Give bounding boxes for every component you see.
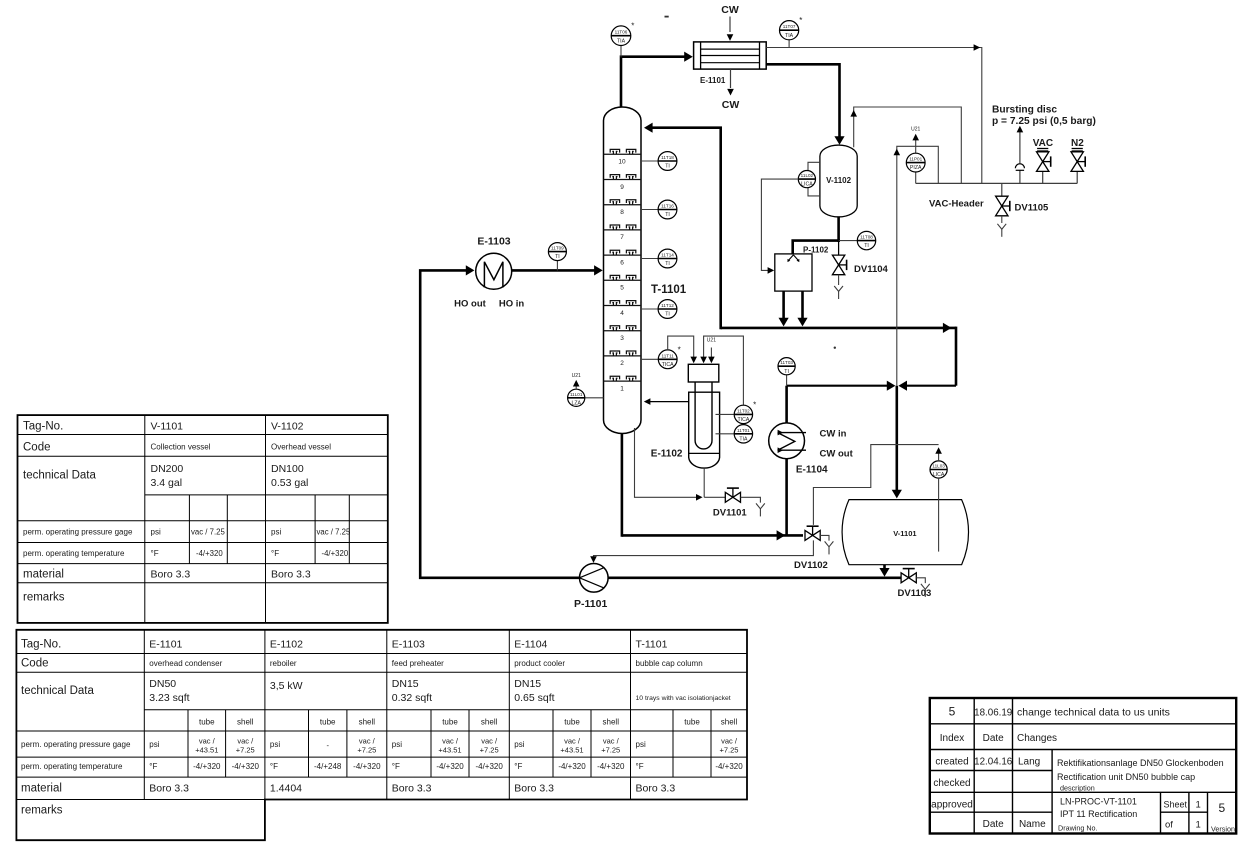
svg-text:HO out: HO out (454, 299, 486, 310)
svg-text:7: 7 (620, 234, 624, 241)
svg-text:product cooler: product cooler (514, 659, 565, 668)
wire product line to V-1101 junction (787, 381, 956, 391)
svg-text:0.65 sqft: 0.65 sqft (514, 692, 554, 704)
svg-text:DN50: DN50 (149, 678, 176, 690)
svg-text:P-1101: P-1101 (574, 598, 607, 610)
svg-text:TI: TI (784, 369, 789, 375)
svg-text:10: 10 (618, 159, 626, 166)
valve DV1105 (996, 183, 1010, 215)
svg-text:TI: TI (665, 164, 670, 170)
instrument 11T14 TI tray6 (641, 249, 677, 268)
svg-text:Date: Date (983, 819, 1005, 830)
svg-text:DV1103: DV1103 (898, 588, 932, 599)
svg-text:TICA: TICA (737, 417, 749, 423)
drain below DV1105 (997, 216, 1006, 237)
table vessels text (23, 421, 351, 604)
svg-text:VAC-Header: VAC-Header (929, 198, 984, 209)
svg-text:remarks: remarks (23, 592, 65, 604)
tray 1 (604, 376, 642, 392)
wire E-1104 bottom connection (785, 459, 788, 536)
svg-text:E-1102: E-1102 (651, 449, 683, 460)
svg-text:PIZA: PIZA (910, 165, 922, 171)
label P-1102 (803, 246, 829, 255)
label CW in (820, 429, 847, 440)
svg-text:12.04.16: 12.04.16 (974, 757, 1013, 768)
column T-1101 (604, 107, 642, 434)
svg-text:-4/+320: -4/+320 (475, 762, 503, 771)
instrument 11T11 TICA tray2 (641, 345, 681, 368)
svg-text:LN-PROC-VT-1101: LN-PROC-VT-1101 (1060, 797, 1137, 807)
bursting disc (1015, 126, 1024, 184)
svg-text:5: 5 (1218, 801, 1225, 815)
svg-text:°F: °F (271, 549, 279, 558)
svg-text:11P01: 11P01 (909, 157, 922, 162)
svg-text:11T11: 11T11 (662, 353, 675, 358)
svg-text:11T16: 11T16 (661, 204, 674, 209)
wire E-1104 top connection (785, 386, 788, 423)
svg-text:Boro 3.3: Boro 3.3 (149, 783, 189, 795)
svg-text:shell: shell (237, 718, 254, 727)
svg-text:psi: psi (270, 740, 280, 749)
wire E-1102 return to column (644, 398, 689, 405)
svg-text:Code: Code (21, 658, 49, 670)
valve DV1104 (832, 255, 846, 275)
svg-text:vac / 7.25: vac / 7.25 (317, 528, 351, 537)
tray 3 (604, 326, 642, 342)
svg-text:18.06.19: 18.06.19 (974, 708, 1012, 719)
wire P-1102 discharge legs (779, 291, 808, 326)
stray dot 1 (665, 16, 669, 18)
svg-text:Collection vessel: Collection vessel (151, 443, 211, 452)
svg-text:*: * (631, 21, 634, 30)
label E-1101 (700, 76, 726, 85)
svg-text:-4/+320: -4/+320 (196, 549, 223, 558)
svg-text:HO in: HO in (499, 299, 525, 310)
svg-text:Lang: Lang (1018, 757, 1040, 768)
label DV1105 (1015, 203, 1050, 214)
svg-text:+7.25: +7.25 (720, 746, 739, 755)
vessel V-1101 (842, 500, 968, 565)
svg-text:psi: psi (151, 528, 161, 537)
svg-text:Overhead vessel: Overhead vessel (271, 443, 331, 452)
wire VAC header (916, 182, 1077, 184)
svg-text:vac /: vac / (481, 737, 498, 746)
label DV1103 (898, 588, 932, 599)
svg-text:11T08: 11T08 (860, 235, 873, 240)
instrument 11L03 LICA on V-1101 (930, 461, 947, 478)
reboiler E-1102 heating element (695, 382, 712, 449)
instrument 11T03 TI (778, 358, 795, 386)
wire level signal 11L02 to P-1102 (761, 179, 798, 274)
svg-text:*: * (799, 16, 802, 25)
instrument 11T16 TI tray8 (641, 200, 677, 219)
svg-text:DN200: DN200 (151, 463, 184, 475)
svg-text:TIA: TIA (785, 33, 794, 39)
wire control signal 11T02 to E-1102 heater (700, 336, 743, 405)
tray 6 (604, 250, 642, 266)
utility U21 arrow to E-1102 heater (707, 338, 716, 364)
reboiler E-1102 vessel (689, 392, 720, 468)
svg-text:reboiler: reboiler (270, 659, 297, 668)
CW inlet top (721, 4, 739, 41)
svg-text:11T02: 11T02 (737, 408, 750, 413)
tray 7 (604, 225, 642, 241)
valve DV1101 (725, 488, 740, 502)
svg-text:-4/+320: -4/+320 (193, 762, 221, 771)
instrument 11L01 LZA column bottom (568, 389, 604, 406)
svg-text:11L01: 11L01 (570, 392, 583, 397)
label E-1102 (651, 449, 683, 460)
svg-text:+7.25: +7.25 (357, 746, 376, 755)
svg-text:11T14: 11T14 (661, 253, 674, 258)
svg-text:Rectification unit DN50 bubble: Rectification unit DN50 bubble cap (1057, 772, 1195, 782)
svg-text:11T03: 11T03 (780, 360, 793, 365)
svg-text:E-1104: E-1104 (796, 465, 828, 476)
svg-text:Boro 3.3: Boro 3.3 (636, 783, 676, 795)
svg-text:TI: TI (665, 312, 670, 318)
svg-text:perm. operating pressure gage: perm. operating pressure gage (21, 740, 131, 749)
wire V-1102 drain branch (838, 241, 840, 256)
svg-text:overhead condenser: overhead condenser (149, 659, 222, 668)
svg-text:tube: tube (564, 718, 580, 727)
svg-text:1: 1 (1196, 820, 1201, 831)
svg-text:TIA: TIA (617, 38, 626, 44)
svg-text:3,5 kW: 3,5 kW (270, 680, 303, 692)
title block grid (930, 698, 1236, 834)
svg-text:bubble cap column: bubble cap column (636, 659, 703, 668)
svg-text:+7.25: +7.25 (236, 746, 255, 755)
svg-text:checked: checked (933, 778, 970, 789)
svg-text:5: 5 (620, 285, 624, 292)
svg-text:+7.25: +7.25 (601, 746, 620, 755)
svg-text:°F: °F (392, 762, 400, 771)
svg-text:tube: tube (320, 718, 336, 727)
svg-text:11T09: 11T09 (551, 246, 564, 251)
svg-text:-4/+320: -4/+320 (597, 762, 625, 771)
wire vent line E-1101 to VAC header (766, 44, 982, 183)
svg-text:vac /: vac / (359, 737, 376, 746)
svg-text:CW: CW (722, 99, 740, 111)
svg-text:*: * (678, 345, 681, 354)
svg-text:DV1105: DV1105 (1015, 203, 1050, 214)
instrument 11T02 TICA (716, 401, 757, 424)
svg-text:perm. operating pressure gage: perm. operating pressure gage (23, 528, 133, 537)
svg-text:11L03: 11L03 (932, 464, 945, 469)
label E-1103 (477, 236, 510, 248)
svg-text:DV1104: DV1104 (854, 264, 889, 275)
svg-text:vac /: vac / (237, 737, 254, 746)
svg-text:°F: °F (514, 762, 522, 771)
svg-text:°F: °F (270, 762, 278, 771)
svg-text:material: material (21, 783, 62, 795)
svg-text:-4/+320: -4/+320 (715, 762, 743, 771)
svg-text:10 trays with vac isolationjac: 10 trays with vac isolationjacket (636, 695, 731, 702)
instrument 11T01 TIA (716, 425, 753, 443)
svg-text:of: of (1165, 820, 1173, 831)
svg-text:Sheet: Sheet (1164, 800, 1188, 810)
svg-text:1: 1 (1196, 800, 1201, 811)
svg-text:CW: CW (721, 4, 739, 16)
reboiler E-1102 heater head (688, 364, 719, 382)
utility U21 arrow at 11L01 (572, 373, 581, 389)
wire column drain line to DV1101 (635, 428, 726, 501)
svg-text:P-1102: P-1102 (803, 246, 829, 255)
wire 11L03 dip tube (938, 478, 940, 551)
label CW out (820, 449, 854, 460)
svg-text:-4/+320: -4/+320 (436, 762, 464, 771)
svg-text:Tag-No.: Tag-No. (23, 421, 63, 433)
svg-text:Boro 3.3: Boro 3.3 (151, 569, 191, 581)
table equipment text (21, 639, 743, 817)
svg-text:T-1101: T-1101 (636, 639, 668, 651)
svg-text:Bursting disc: Bursting disc (992, 105, 1057, 116)
svg-text:8: 8 (620, 209, 624, 216)
drain after DV1101 (741, 497, 765, 516)
wire level signal 11L03 to DV1102 (813, 445, 942, 525)
svg-text:IPT 11 Rectification: IPT 11 Rectification (1060, 809, 1137, 819)
vacuum pump P-1102 (775, 254, 812, 291)
label HO out (454, 299, 486, 310)
wire distillate line E-1101 to V-1102 (766, 64, 844, 145)
svg-text:U21: U21 (572, 373, 581, 379)
svg-text:11T01: 11T01 (737, 428, 750, 433)
svg-text:3.4 gal: 3.4 gal (151, 477, 183, 489)
svg-text:feed preheater: feed preheater (392, 659, 444, 668)
pump P-1101 (580, 564, 609, 593)
svg-text:1.4404: 1.4404 (270, 783, 302, 795)
svg-text:TI: TI (665, 261, 670, 267)
product cooler E-1104 (769, 423, 806, 459)
svg-text:U21: U21 (707, 338, 716, 344)
svg-text:TI: TI (665, 212, 670, 218)
svg-text:shell: shell (359, 718, 376, 727)
stray dot 2 (834, 347, 836, 349)
instrument 11T08 TI (839, 231, 876, 249)
wire vapor line column top to E-1101 (621, 52, 693, 107)
svg-text:tube: tube (199, 718, 215, 727)
tray 5 (604, 275, 642, 291)
svg-text:3: 3 (620, 335, 624, 342)
tray 9 (604, 175, 642, 191)
svg-text:11T06: 11T06 (615, 30, 628, 35)
svg-text:11T12: 11T12 (661, 303, 674, 308)
svg-text:p = 7.25 psi (0,5 barg): p = 7.25 psi (0,5 barg) (992, 116, 1096, 127)
svg-text:psi: psi (392, 740, 402, 749)
svg-text:11T18: 11T18 (661, 155, 674, 160)
heat exchanger E-1101 (694, 42, 767, 69)
label VAC-Header (929, 198, 984, 209)
svg-text:DN15: DN15 (392, 678, 419, 690)
vessel V-1102 (820, 145, 857, 217)
svg-text:0.53 gal: 0.53 gal (271, 477, 308, 489)
svg-text:LZA: LZA (571, 400, 581, 406)
instrument 11L02 LICA on V-1102 (798, 162, 820, 196)
svg-text:remarks: remarks (21, 805, 63, 817)
svg-text:3.23 sqft: 3.23 sqft (149, 692, 189, 704)
svg-text:Drawing No.: Drawing No. (1058, 824, 1098, 833)
instrument 11T07 TIA (780, 16, 803, 47)
svg-text:-4/+320: -4/+320 (353, 762, 381, 771)
wire feed circulation line (420, 265, 579, 578)
svg-text:Changes: Changes (1017, 733, 1057, 744)
svg-text:Date: Date (983, 733, 1005, 744)
svg-text:V-1102: V-1102 (826, 176, 851, 185)
svg-text:U21: U21 (911, 127, 920, 133)
svg-text:5: 5 (949, 705, 956, 719)
svg-text:Code: Code (23, 442, 51, 454)
wire control signal 11T11 to E-1102 heater (668, 336, 697, 363)
table equipment grid (16, 630, 747, 840)
svg-text:vac /: vac / (603, 737, 620, 746)
svg-text:shell: shell (481, 718, 498, 727)
svg-text:LICA: LICA (933, 472, 945, 478)
wire product header (721, 323, 956, 386)
wire bottoms discharge line (608, 576, 901, 579)
svg-text:6: 6 (620, 259, 624, 266)
svg-text:vac /: vac / (199, 737, 216, 746)
wire V-1102 vent to VAC header (850, 107, 961, 183)
svg-text:tube: tube (684, 718, 700, 727)
instrument 11T18 TI tray10 (641, 152, 677, 171)
svg-text:LICA: LICA (801, 182, 813, 188)
svg-text:TICA: TICA (662, 362, 674, 368)
wire V-1101 vent riser to VAC header (894, 146, 939, 385)
svg-text:TIA: TIA (739, 436, 748, 442)
svg-text:Boro 3.3: Boro 3.3 (392, 783, 432, 795)
wire V-1102 bottom outlet (793, 216, 840, 254)
label DV1102 (794, 560, 828, 571)
svg-text:*: * (753, 401, 756, 410)
svg-text:E-1103: E-1103 (477, 236, 510, 248)
svg-text:TI: TI (864, 243, 869, 249)
svg-text:V-1101: V-1101 (151, 421, 184, 433)
svg-text:T-1101: T-1101 (651, 284, 687, 296)
svg-text:Tag-No.: Tag-No. (21, 639, 61, 651)
svg-text:E-1101: E-1101 (149, 639, 182, 651)
svg-text:psi: psi (514, 740, 524, 749)
svg-text:Name: Name (1019, 819, 1046, 830)
valve DV1103 (901, 569, 916, 583)
svg-text:+43.51: +43.51 (560, 746, 583, 755)
table vessels grid (18, 415, 388, 623)
svg-text:°F: °F (151, 549, 159, 558)
utility U21 arrow at PIZA (911, 127, 920, 147)
svg-text:Boro 3.3: Boro 3.3 (271, 569, 311, 581)
svg-text:change technical data to us un: change technical data to us units (1017, 707, 1170, 719)
CW outlet bottom (722, 69, 740, 111)
wire E-1102 bottom outlet (703, 469, 705, 498)
svg-text:psi: psi (149, 740, 159, 749)
svg-text:DN15: DN15 (514, 678, 541, 690)
wire column bottoms line (622, 434, 803, 541)
tray 8 (604, 200, 642, 216)
wire V-1101 feed downpipe (892, 386, 902, 499)
svg-text:perm. operating temperature: perm. operating temperature (21, 762, 123, 771)
tray 4 (604, 301, 642, 317)
svg-text:VAC: VAC (1033, 138, 1053, 149)
svg-text:V-1101: V-1101 (893, 529, 916, 538)
svg-text:11T07: 11T07 (783, 24, 796, 29)
svg-text:CW out: CW out (820, 449, 854, 460)
svg-text:description: description (1060, 784, 1095, 793)
svg-text:shell: shell (721, 718, 738, 727)
drain after DV1103 (916, 578, 929, 597)
instrument 11T06 TIA (611, 21, 634, 56)
label bursting disc (992, 105, 1096, 128)
svg-text:°F: °F (636, 762, 644, 771)
svg-text:N2: N2 (1071, 138, 1084, 149)
svg-text:9: 9 (620, 184, 624, 191)
svg-text:vac /: vac / (721, 737, 738, 746)
svg-text:material: material (23, 569, 64, 581)
instrument 11P01 PIZA (906, 146, 925, 183)
svg-text:psi: psi (636, 740, 646, 749)
svg-text:E-1102: E-1102 (270, 639, 303, 651)
feed preheater E-1103 (476, 253, 512, 289)
svg-text:4: 4 (620, 310, 624, 317)
valve VAC (1037, 149, 1051, 184)
wire reflux line to column top (644, 123, 721, 330)
svg-text:+7.25: +7.25 (480, 746, 499, 755)
svg-text:technical Data: technical Data (21, 685, 94, 697)
svg-text:perm. operating temperature: perm. operating temperature (23, 549, 125, 558)
svg-text:Index: Index (940, 733, 964, 744)
label HO in (499, 299, 525, 310)
svg-text:+43.51: +43.51 (195, 746, 218, 755)
label DV1104 (854, 264, 889, 275)
svg-text:DV1102: DV1102 (794, 560, 828, 571)
svg-text:Version: Version (1211, 825, 1235, 834)
label P-1101 (574, 598, 607, 610)
tray 10 (604, 149, 642, 165)
svg-text:CW in: CW in (820, 429, 847, 440)
label DV1101 (713, 508, 748, 519)
svg-text:-4/+320: -4/+320 (558, 762, 586, 771)
svg-text:-4/+248: -4/+248 (314, 762, 342, 771)
wire feed line to column (512, 265, 603, 275)
svg-text:-4/+320: -4/+320 (232, 762, 260, 771)
svg-text:created: created (935, 757, 968, 768)
label N2 (1071, 138, 1084, 149)
svg-text:°F: °F (149, 762, 157, 771)
svg-text:technical Data: technical Data (23, 470, 96, 482)
svg-text:+43.51: +43.51 (438, 746, 461, 755)
svg-text:1: 1 (620, 385, 624, 392)
svg-text:approved: approved (931, 800, 973, 811)
label VAC (1033, 138, 1053, 149)
svg-text:E-1101: E-1101 (700, 76, 726, 85)
svg-text:vac /: vac / (442, 737, 459, 746)
tray 2 (604, 351, 642, 367)
svg-text:tube: tube (442, 718, 458, 727)
svg-text:vac / 7.25: vac / 7.25 (191, 528, 225, 537)
drain below DV1104 (834, 275, 843, 299)
title block text (931, 705, 1235, 834)
svg-text:Boro 3.3: Boro 3.3 (514, 783, 554, 795)
svg-text:E-1103: E-1103 (392, 639, 425, 651)
valve N2 (1071, 149, 1085, 184)
svg-text:vac /: vac / (564, 737, 581, 746)
label E-1104 (796, 465, 828, 476)
svg-text:-4/+320: -4/+320 (322, 549, 349, 558)
wire V-1101 bottom outlet (879, 565, 889, 577)
svg-text:DN100: DN100 (271, 463, 304, 475)
wire DV1102 to P-1101 suction (590, 540, 813, 563)
svg-text:11L02: 11L02 (801, 173, 814, 178)
valve DV1102 (805, 526, 820, 540)
svg-text:2: 2 (620, 360, 624, 367)
svg-text:TI: TI (555, 254, 560, 260)
